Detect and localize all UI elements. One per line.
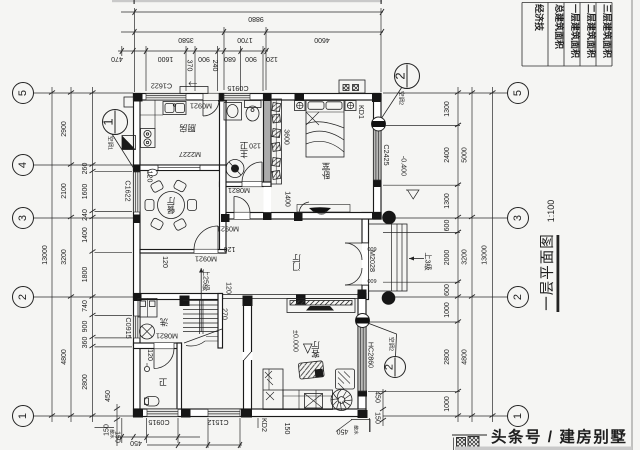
svg-text:上3级: 上3级: [424, 252, 433, 270]
detail callout circle 2 top-right: [379, 64, 420, 123]
svg-text:上25级: 上25级: [202, 269, 211, 291]
living fan plant: [331, 390, 352, 411]
svg-text:1: 1: [17, 413, 29, 419]
interior wall stair east: [218, 294, 223, 349]
kitchen sink: [163, 102, 186, 115]
small rect outside top-left corner: [124, 97, 134, 107]
right fine dim line: [457, 87, 459, 422]
svg-text:2900: 2900: [61, 121, 68, 137]
level mark living ±0.000 triangle: [303, 344, 313, 353]
top dimension line row3 fine chain: [118, 50, 268, 52]
svg-text:600: 600: [444, 220, 451, 232]
window end block C2425 top: [374, 118, 382, 125]
svg-text:C2425: C2425: [382, 144, 391, 165]
wc floor drain: [144, 363, 149, 372]
svg-text:M2227: M2227: [179, 150, 201, 159]
door M0921 kitchen top: opening: [203, 94, 219, 101]
svg-text:KD2: KD2: [260, 418, 269, 432]
svg-text:270: 270: [221, 308, 228, 320]
axis bubble 4 left: [13, 155, 34, 176]
living L sofa: [263, 369, 333, 410]
svg-text:4800: 4800: [61, 349, 68, 365]
svg-text:C1512: C1512: [207, 418, 228, 427]
svg-text:150: 150: [283, 423, 290, 435]
svg-text:M2028: M2028: [368, 250, 377, 272]
window C0915 bottom wc: [147, 409, 178, 417]
svg-text:卫: 卫: [158, 377, 167, 387]
svg-text:240: 240: [82, 209, 89, 221]
column top-left corner: [133, 93, 143, 102]
interior wall dining south: [140, 250, 226, 254]
svg-text:1300: 1300: [444, 101, 451, 117]
wc toilet: [145, 397, 160, 407]
column living axis2 right: [358, 290, 367, 300]
column storage axis2: [243, 296, 253, 307]
round porch column axis3: [382, 211, 396, 225]
section detail cut bottom-center: [452, 434, 487, 436]
top dimension line row2: 3580 1700 4600: [121, 31, 383, 33]
top edge cropped dim row: [112, 0, 382, 2]
svg-text:120: 120: [225, 282, 232, 294]
interior wall laundry/wc divider: [134, 343, 182, 349]
axis bubble 2 left: [13, 287, 34, 308]
bed with nightstands: [295, 101, 357, 158]
door M0921 corridor axis3: opening: [234, 213, 250, 220]
column bottom wall 1: [181, 409, 191, 418]
bath toilet: [245, 101, 262, 122]
svg-text:600: 600: [367, 277, 376, 283]
sheet border frame line: [631, 0, 633, 450]
svg-text:900: 900: [245, 55, 257, 62]
opening M2227: [158, 166, 200, 171]
svg-text:150: 150: [374, 412, 381, 424]
window HC2860 right living: [358, 326, 366, 391]
svg-text:120: 120: [249, 142, 261, 149]
exterior right wall entrance segment upper: [362, 213, 381, 220]
svg-text:900: 900: [82, 321, 89, 333]
door M0821 laundry: opening: [154, 343, 174, 349]
column bottom wall 2: [241, 409, 252, 418]
door M0921 dining south: opening: [194, 250, 218, 254]
svg-text:C0915: C0915: [124, 317, 133, 338]
svg-text:1300: 1300: [444, 193, 451, 209]
svg-text:M0921: M0921: [217, 225, 239, 234]
ac outdoor unit kitchen left: [122, 136, 136, 150]
kitchen stove: [141, 129, 156, 148]
svg-text:5000: 5000: [462, 147, 469, 163]
wardrobe: [271, 99, 282, 184]
column top-right corner: [372, 93, 382, 102]
living coffee table: [298, 361, 324, 379]
bath shower circle: [226, 160, 244, 178]
right coarse dim line 5000 3200 4800: [471, 87, 473, 422]
left coarse dim line 2900 2100 3200 4800: [70, 87, 72, 422]
bottom right corner ticks: [369, 418, 371, 432]
svg-text:M0921: M0921: [195, 255, 217, 264]
svg-text:1800: 1800: [82, 267, 89, 283]
dining chairs: [145, 179, 197, 231]
svg-text:空调2: 空调2: [398, 91, 406, 105]
svg-text:厅: 厅: [166, 196, 175, 206]
svg-text:主: 主: [239, 149, 248, 159]
axis leader lines left: [34, 92, 134, 94]
svg-text:120: 120: [146, 171, 153, 183]
detail callout circle 2 living right: [369, 324, 406, 378]
svg-text:370: 370: [186, 60, 193, 72]
svg-text:9880: 9880: [248, 15, 264, 22]
porch corner bottom-right: [336, 420, 370, 433]
stairs treads: [183, 268, 222, 346]
right overall dim line 13000: [492, 87, 494, 422]
svg-text:360: 360: [82, 337, 89, 349]
window C1512 bottom storage: [208, 409, 240, 417]
entry arrow 上3级: [409, 257, 424, 261]
svg-text:240: 240: [211, 60, 218, 72]
bath vanity: [224, 103, 242, 121]
svg-text:空调1: 空调1: [107, 136, 115, 150]
svg-text:3: 3: [512, 215, 524, 221]
svg-text:260: 260: [82, 163, 89, 175]
bottom dim line left: [116, 436, 200, 438]
bedroom dresser with tv: [297, 202, 350, 215]
svg-text:1600: 1600: [82, 184, 89, 200]
column axis3 bath east: [263, 213, 272, 221]
axis leader lines right: [383, 92, 508, 94]
svg-text:900: 900: [198, 55, 210, 62]
left corner mini chain 450/150: [116, 404, 118, 446]
svg-text:1400: 1400: [82, 227, 89, 243]
svg-text:洗: 洗: [159, 317, 168, 327]
living tv console: [287, 299, 355, 313]
exterior right wall entrance segment lower: [362, 285, 369, 300]
column bottom-left corner: [133, 409, 143, 418]
detail callout circle 1 top-left: [101, 110, 134, 169]
svg-text:450: 450: [374, 391, 381, 403]
svg-text:C1622: C1622: [151, 82, 172, 91]
svg-text:13000: 13000: [42, 245, 49, 265]
svg-text:1400: 1400: [284, 191, 291, 207]
svg-text:3: 3: [17, 215, 29, 221]
svg-text:2800: 2800: [82, 374, 89, 390]
extension lines from plan to right chains: [383, 124, 460, 126]
exterior right wall upper (bedroom): [374, 94, 382, 220]
svg-text:1: 1: [101, 118, 116, 125]
exterior bottom wall: [134, 409, 367, 417]
storage door slit: [243, 352, 253, 360]
axis bubble 5 right: [508, 83, 529, 104]
column stairs left axis2: [180, 296, 190, 307]
svg-text:厅: 厅: [311, 340, 320, 350]
interior wall storage east: [244, 300, 252, 410]
exterior top wall: [134, 94, 382, 101]
bottom dim line 2: [147, 444, 242, 446]
svg-text:150: 150: [114, 431, 121, 443]
top dimension line row1 total 9880: [121, 11, 383, 13]
svg-text:-0.400: -0.400: [400, 156, 409, 176]
svg-text:740: 740: [82, 300, 89, 312]
svg-text:三层建筑面积: 三层建筑面积: [602, 4, 613, 58]
svg-text:M0921: M0921: [190, 102, 212, 111]
svg-text:13000: 13000: [482, 245, 489, 265]
interior wall kitchen east: [220, 94, 227, 171]
axis2 beam thin lines: [223, 294, 367, 296]
interior wall axis3 corridor/bedroom south: [226, 213, 381, 220]
column left axis3: [133, 215, 141, 224]
svg-text:经济技: 经济技: [534, 4, 545, 32]
svg-text:1: 1: [512, 413, 524, 419]
svg-text:1000: 1000: [444, 302, 451, 318]
axis bubble 5 left: [13, 83, 34, 104]
svg-text:3600: 3600: [283, 129, 290, 145]
svg-text:680: 680: [224, 55, 236, 62]
svg-text:1600: 1600: [158, 55, 174, 62]
svg-text:散水: 散水: [353, 425, 360, 435]
svg-text:2400: 2400: [444, 147, 451, 163]
svg-text:C0915: C0915: [227, 84, 248, 93]
svg-text:4: 4: [17, 162, 29, 168]
svg-text:1:100: 1:100: [546, 200, 556, 223]
svg-text:2: 2: [17, 294, 29, 300]
laundry round tub: [140, 324, 155, 339]
watermark strip: [455, 447, 632, 450]
svg-text:一层平面图: 一层平面图: [540, 233, 556, 311]
svg-text:厨房: 厨房: [179, 123, 196, 133]
column left axis4: [133, 166, 141, 174]
interior wall bath east: [264, 94, 272, 187]
svg-text:470: 470: [111, 55, 123, 62]
column axis3 right: [372, 212, 382, 220]
svg-text:450: 450: [105, 390, 112, 402]
svg-text:120: 120: [266, 55, 278, 62]
svg-text:3200: 3200: [61, 249, 68, 265]
column bottom-right corner: [358, 410, 368, 418]
svg-text:1700: 1700: [237, 36, 253, 43]
ac hole symbol KD1 bedroom corner: [372, 117, 386, 131]
axis bubble 2 right: [508, 287, 529, 308]
window end block C2425 bottom: [374, 180, 382, 187]
extension lines from plan to left chains: [95, 171, 133, 173]
svg-text:5: 5: [17, 90, 29, 96]
living armchair: [336, 369, 355, 389]
window C1622 top kitchen: [146, 94, 186, 101]
column window end HC2860: [358, 391, 368, 397]
round porch column axis2: [382, 291, 396, 305]
svg-text:2: 2: [512, 294, 524, 300]
svg-text:C0915: C0915: [148, 418, 169, 427]
interior wall dining east: [220, 165, 227, 253]
svg-text:2000: 2000: [444, 250, 451, 266]
left fine dim line: [92, 87, 94, 422]
interior wall wc east: [177, 343, 182, 409]
svg-text:120: 120: [146, 349, 153, 361]
svg-text:2800: 2800: [444, 349, 451, 365]
svg-text:KD1: KD1: [357, 105, 366, 119]
svg-text:2100: 2100: [61, 183, 68, 199]
window C2425 right bedroom: [374, 125, 382, 180]
title underline: [557, 235, 560, 312]
double door M2028 entrance: [362, 243, 369, 285]
living side table: [305, 394, 323, 409]
dining table round: [158, 192, 185, 219]
svg-text:450: 450: [337, 428, 349, 435]
exterior right wall lower (living): [358, 294, 366, 417]
svg-text:卫: 卫: [239, 141, 248, 151]
window C1622 left dining: [134, 172, 141, 212]
canopy above kitchen door: [180, 82, 208, 94]
economic index table frame: [522, 2, 612, 4]
column top bath/bedroom: [263, 93, 272, 101]
small oval fixture dining wall: [148, 169, 158, 176]
axis bubble 1 right: [508, 406, 529, 427]
svg-text:2: 2: [393, 72, 408, 79]
column top kitchen/bath: [218, 93, 227, 102]
interior wall kitchen/dining: [134, 165, 227, 171]
svg-text:C1622: C1622: [124, 180, 133, 201]
left overall dim line 13000: [51, 87, 53, 422]
kitchen counter edge: [140, 101, 163, 129]
svg-text:600: 600: [444, 284, 451, 296]
svg-text:餐: 餐: [166, 205, 175, 215]
svg-text:门: 门: [292, 262, 301, 272]
level mark outside -0.400 triangle: [406, 190, 419, 199]
svg-text:M0821: M0821: [156, 332, 178, 341]
svg-text:3580: 3580: [178, 36, 194, 43]
svg-text:空调2: 空调2: [388, 337, 396, 351]
laundry washer boxes: [138, 299, 157, 318]
svg-text:M0821: M0821: [228, 186, 250, 195]
axis bubble 3 right: [508, 208, 529, 229]
svg-text:4800: 4800: [462, 349, 469, 365]
interior wall bath south: [220, 182, 272, 187]
svg-text:±0.000: ±0.000: [292, 330, 301, 352]
svg-text:厅: 厅: [292, 253, 301, 263]
svg-text:二层建筑面积: 二层建筑面积: [586, 4, 597, 58]
svg-text:卧: 卧: [321, 170, 330, 180]
svg-text:120: 120: [161, 256, 168, 268]
axis bubble 3 left: [13, 208, 34, 229]
svg-text:一层建筑面积: 一层建筑面积: [570, 4, 581, 58]
bedroom door opening bath east wall: [264, 187, 272, 213]
svg-text:室: 室: [321, 162, 330, 172]
column top axis mid bedroom: [295, 94, 305, 102]
svg-text:1000: 1000: [444, 396, 451, 412]
column axis3 mid: [294, 213, 303, 221]
svg-text:3200: 3200: [462, 249, 469, 265]
porch steps right: [369, 224, 408, 291]
column axis3 dining east: [221, 214, 230, 222]
svg-text:HC2860: HC2860: [367, 342, 376, 368]
svg-text:120: 120: [224, 245, 236, 252]
svg-text:5: 5: [512, 90, 524, 96]
svg-text:头条号 / 建房别墅: 头条号 / 建房别墅: [491, 427, 627, 446]
column left axis2: [133, 293, 142, 301]
door M0821 bath south: opening: [242, 182, 262, 187]
svg-text:450: 450: [130, 439, 142, 446]
svg-text:客: 客: [311, 349, 320, 359]
interior wall axis2 solid part: [134, 294, 223, 300]
flue box above bedroom wall: [339, 80, 365, 93]
svg-text:2: 2: [384, 364, 396, 370]
axis bubble 1 left: [13, 406, 34, 427]
window C0915 left laundry: [134, 316, 141, 338]
svg-text:总建筑面积: 总建筑面积: [554, 4, 565, 49]
exterior left wall: [134, 94, 141, 417]
svg-text:4600: 4600: [314, 36, 330, 43]
column hall axis2: [296, 295, 306, 305]
window C0915 top bath: [224, 94, 250, 101]
ac hole symbol KD living wall: [356, 314, 370, 328]
